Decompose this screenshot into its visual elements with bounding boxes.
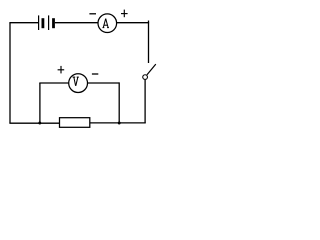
switch S1: blade (open) bbox=[147, 64, 156, 75]
wire: voltmeter right horizontal bbox=[88, 82, 120, 84]
ammeter U1: circle body bbox=[98, 14, 117, 33]
label: plus sign of ammeter bbox=[121, 10, 128, 18]
wire: voltmeter right vertical drop bbox=[118, 82, 120, 123]
label: plus sign of voltmeter bbox=[58, 66, 65, 74]
wire: voltmeter left horizontal bbox=[39, 82, 69, 84]
resistor R1: rectangle body bbox=[60, 118, 90, 128]
ammeter U1: letter A bbox=[103, 19, 109, 28]
wire: top middle segment (battery to ammeter) bbox=[55, 22, 98, 24]
wire: right vertical below switch bbox=[144, 80, 146, 123]
battery G1: long plate 1 bbox=[38, 15, 40, 30]
battery G1: short thick plate 2 bbox=[52, 18, 55, 28]
junction dot: right (voltmeter tap) bbox=[118, 122, 121, 125]
voltmeter U2: letter V bbox=[73, 77, 79, 86]
wire: left vertical side bbox=[9, 23, 11, 124]
wire: top right segment (ammeter to corner) bbox=[116, 22, 149, 24]
battery G1: long plate 2 bbox=[48, 15, 50, 30]
label: minus sign of voltmeter bbox=[92, 73, 98, 75]
wire: bottom left segment (resistor to corner) bbox=[9, 122, 59, 124]
label: minus sign of ammeter bbox=[89, 13, 96, 15]
wire: top left segment (corner to battery) bbox=[9, 22, 38, 24]
junction dot: left (voltmeter tap) bbox=[38, 122, 41, 125]
voltmeter U2: circle body bbox=[69, 74, 88, 93]
wire: right vertical to switch top terminal bbox=[148, 21, 150, 64]
wire: voltmeter left vertical drop bbox=[39, 83, 41, 123]
wire: bottom right segment (corner to resistor) bbox=[90, 122, 146, 124]
battery G1: short thick plate 1 bbox=[42, 18, 45, 28]
switch S1: pivot circle bbox=[143, 75, 148, 80]
